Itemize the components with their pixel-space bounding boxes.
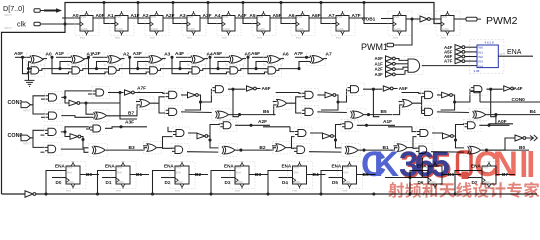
wire N4 out to AND G8 [396, 67, 409, 69]
flip-flop U10 (PWM2 register) [436, 11, 460, 40]
wire stub P2 upper input [143, 145, 147, 147]
junction bottom clock 0 [44, 192, 47, 195]
svg-text:CLRN: CLRN [188, 28, 195, 31]
junction clk drop 2 [136, 1, 139, 4]
flip-flop U16 (B5 register) [338, 162, 363, 193]
wire A0F into XOR stage 0 [15, 56, 30, 58]
svg-text:A7F: A7F [352, 13, 361, 19]
svg-text:IN2: IN2 [478, 55, 483, 59]
wire Q output A6F [309, 17, 327, 19]
svg-text:ENA: ENA [224, 163, 234, 168]
wire C4c out down [491, 89, 497, 117]
inverter N9 (A7F) [455, 59, 465, 64]
wire C4b out to xor Z4 [437, 111, 469, 114]
wire A2F into XOR stage 2 [93, 56, 108, 58]
svg-text:PRN: PRN [344, 167, 349, 170]
and-gate D1a (chain2 cell1 upper) [44, 126, 62, 138]
wire stub P4 upper input [394, 145, 398, 147]
inverter C3t (chain1 cell 3 top) [383, 86, 393, 91]
wire C3a out to inverter C3n [317, 94, 325, 96]
wire CON0 tag (right) [480, 101, 540, 103]
flip-flop U15 (B4 register) [288, 162, 313, 193]
and-gate C1c (chain1 cell1 output) [92, 87, 110, 99]
wire clock riser to FF B3 [211, 171, 235, 195]
junction carry tap 1 [58, 67, 61, 70]
xor-gate Y1 (chain2 cell1, B3) [89, 144, 108, 157]
and-gate C4c (chain1 cell 4 output) [470, 83, 488, 95]
svg-text:inst: inst [293, 189, 298, 193]
wire D3 input stub [221, 177, 235, 179]
wire carry G6 to G7 [238, 69, 266, 71]
junction bottom clock 5 [319, 192, 322, 195]
wire A1F across to cell4 [388, 126, 412, 128]
svg-text:CON0: CON0 [512, 97, 526, 103]
junction A3F [119, 125, 122, 128]
wire C3b out to xor Z3 [317, 111, 347, 114]
svg-text:A3: A3 [179, 13, 185, 19]
wire bottom clock line [36, 193, 537, 195]
inverter N6 (A4F) [455, 45, 465, 50]
wire CON0 up to C4c [470, 92, 480, 103]
svg-text:PRN: PRN [394, 16, 399, 19]
wire carry-in to and-gate G1 [29, 68, 32, 70]
svg-text:B2: B2 [195, 172, 201, 178]
wire C3c out down [373, 89, 379, 117]
svg-text:A5F: A5F [399, 86, 408, 92]
wire carry up to XOR X8 [299, 62, 310, 69]
wire A7F into C2a [139, 92, 165, 95]
flip-flop U17 (B6 register) [423, 162, 448, 193]
wire A7F into XOR stage 7 [295, 56, 310, 58]
junction carry-in [27, 67, 30, 70]
svg-text:A0: A0 [72, 13, 78, 19]
wire D0 input stub [52, 177, 66, 179]
svg-text:B5: B5 [381, 109, 387, 115]
wire D4 input stub [279, 177, 293, 179]
svg-text:CLRN: CLRN [294, 181, 301, 184]
junction B6 output [238, 113, 241, 116]
svg-text:PRN: PRN [67, 167, 72, 170]
wire Q output A4F [235, 17, 253, 19]
svg-text:ENA: ENA [176, 171, 181, 174]
wire B0 to inverter N10 [487, 138, 516, 150]
svg-text:3.08: 3.08 [474, 69, 480, 73]
wire A6F into C3a [276, 92, 302, 95]
wire Q output B3 [249, 174, 268, 176]
wire C1b out to xor Z1 [61, 116, 93, 118]
wire Q output B2 [189, 174, 208, 176]
wire carry-in from ground to XOR X1 [29, 62, 31, 81]
wire D input of FF A7 [318, 17, 336, 19]
wire Q output A0F [93, 17, 111, 19]
wire C2n out to C2c [198, 89, 212, 102]
svg-text:A2: A2 [142, 13, 148, 19]
junction A2F [249, 124, 252, 127]
wire CON0 branch to and-gate D1b [33, 138, 45, 148]
svg-text:ENA: ENA [344, 171, 349, 174]
inverter N1 [418, 14, 433, 24]
junction carry tap 4 [178, 67, 181, 70]
svg-text:CLRN: CLRN [394, 28, 401, 31]
wire C2c out down [233, 89, 239, 117]
svg-text:CON1: CON1 [8, 100, 23, 106]
svg-text:inst: inst [235, 189, 240, 193]
inverter D1n (chain2 cell1) [70, 134, 81, 140]
svg-text:A3: A3 [164, 51, 170, 57]
svg-text:CLRN: CLRN [81, 28, 88, 31]
svg-text:B7: B7 [128, 111, 134, 117]
flip-flop U12 (B1 register) [111, 162, 136, 193]
svg-text:PRN: PRN [188, 16, 193, 19]
svg-text:ENA: ENA [117, 171, 122, 174]
wire Z1 out (net B7) to or-gate O2 [107, 105, 140, 116]
svg-text:A6: A6 [288, 13, 294, 19]
svg-text:CLRN: CLRN [151, 28, 158, 31]
and-gate C2b (chain1 cell 2 lower) [165, 106, 183, 118]
wire Q output B0 [80, 174, 99, 176]
wire D input of FF A0 [62, 17, 80, 19]
svg-text:ENA: ENA [55, 163, 65, 168]
svg-text:A3F: A3F [375, 72, 384, 77]
xor-gate X8 (sum bit A7) [307, 53, 326, 66]
wire Z4 out (net B4) [486, 114, 540, 116]
wire stub D1b second input [41, 151, 45, 153]
wire CON0 to and-gate D1a [31, 130, 45, 138]
svg-text:A4: A4 [214, 13, 220, 19]
wire D input of FF A1 [97, 17, 115, 19]
wire A6F down to carry AND G7 [248, 57, 265, 73]
and-gate C1b (chain1 cell1 lower) [45, 110, 63, 122]
wire clk drop to FF A1 [104, 3, 115, 24]
and-gate D4a (chain2 cell 4 upper) [416, 127, 434, 139]
svg-text:inst: inst [393, 36, 398, 40]
junction C1n output [84, 101, 87, 104]
inverter C4n (chain1 cell 4) [442, 92, 453, 98]
svg-text:CLRN: CLRN [116, 28, 123, 31]
svg-text:A1F: A1F [375, 61, 384, 66]
wire C4c out to inverter C4t [486, 88, 502, 90]
and-gate G1 (carry stage 0) [27, 64, 45, 76]
svg-text:CLRN: CLRN [337, 28, 344, 31]
wire C3c out to inverter C3t [363, 88, 382, 90]
and-gate D4c (chain2 cell 4 output) [464, 119, 482, 131]
wire XOR X3 output [121, 58, 125, 60]
svg-text:A7F: A7F [294, 51, 303, 57]
wire to A4F tag [513, 88, 514, 90]
wire stub C1b second input [41, 116, 45, 118]
and-gate G2 (carry stage 1) [68, 64, 86, 76]
or-gate O2 (chain1 cell 2) [137, 97, 155, 110]
wire A1F down to carry AND G2 [52, 57, 69, 73]
svg-text:A2F: A2F [92, 51, 101, 57]
wire carry up to XOR X2 [60, 62, 71, 69]
wire carry up to XOR X4 [138, 62, 149, 69]
wire A-net into D3a [290, 127, 295, 132]
wire A6F into XOR stage 6 [252, 56, 267, 58]
wire D1b out to xor Y1 [61, 149, 89, 152]
junction B2 output [239, 149, 242, 152]
wire C1n out down to xor Z1 [86, 103, 94, 114]
wire stub C1c second input [88, 93, 93, 95]
wire carry up to XOR X3 [97, 62, 108, 69]
svg-text:A1: A1 [107, 13, 113, 19]
svg-text:inst: inst [80, 36, 85, 40]
xor-gate X2 (sum bit A1) [68, 53, 87, 66]
wire clk drop to FF A5 [243, 3, 257, 24]
wire carry up to XOR X7 [256, 62, 267, 69]
wire bottom clock line (left) [2, 193, 26, 195]
svg-text:inst: inst [116, 189, 121, 193]
and-gate C4b (chain1 cell 4 lower) [421, 106, 439, 118]
junction D1a output [63, 130, 66, 133]
junction bottom clock 1 [96, 192, 99, 195]
junction chain1 cell 3 mid [336, 100, 339, 103]
wire O4 branch to C4b [420, 103, 423, 113]
wire A4F into XOR stage 4 [176, 56, 191, 58]
wire Y2 out (net B2) [235, 149, 269, 151]
wire clk drop to FF A7 [321, 3, 336, 24]
wire Y3 out (net B1) [359, 149, 393, 151]
wire PWM1 tap down [396, 19, 412, 45]
svg-text:inst: inst [257, 36, 262, 40]
flip-flop U14 (B3 register) [230, 162, 255, 193]
and-gate C2a (chain1 cell 2 upper) [165, 89, 183, 101]
wire Q output A1F [128, 17, 146, 19]
junction A5F tap [208, 56, 211, 59]
junction chain2 cell 4 mid [454, 138, 457, 141]
wire carry G7 out [276, 69, 299, 71]
and-gate D2b (chain2 cell 2 lower) [171, 144, 189, 157]
junction A4F tap [170, 56, 173, 59]
wire clock riser to FF B4 [268, 171, 293, 195]
svg-text:PRN: PRN [337, 16, 342, 19]
wire C1a out to inverter C1n [61, 97, 69, 103]
svg-text:A7: A7 [326, 51, 332, 57]
wire Y1 out (net B3) to or-gate P2 [106, 148, 147, 150]
xor-gate Z3 (chain1 cell 3, B5) [347, 109, 366, 121]
xor-gate X3 (sum bit A2) [104, 53, 123, 66]
svg-text:INPUT: INPUT [23, 109, 31, 113]
wire D input of FF A2 [132, 17, 150, 19]
wire A3F into XOR stage 3 [134, 56, 149, 58]
inverter D2n (chain2 cell 2) [197, 133, 208, 139]
xor-gate Y4 (chain2 cell 4, B0) [464, 144, 483, 157]
wire stub O4 upper input [399, 101, 403, 103]
wire Y4 out (net B0) [481, 149, 529, 151]
wire D2 input stub [161, 177, 175, 179]
svg-text:CK: CK [361, 145, 399, 184]
wire D6 input stub [414, 177, 428, 179]
compare block U19 (blue megafunction) [474, 41, 506, 73]
junction carry tap 6 [254, 67, 257, 70]
inverter D3n (chain2 cell 3) [323, 133, 334, 139]
wire P3 out to D3a [286, 137, 295, 148]
junction clk drop 3 [171, 1, 174, 4]
wire to A6F tag [256, 88, 260, 90]
wire B4 junction down to A0F row [495, 115, 497, 124]
svg-text:inst: inst [175, 189, 180, 193]
svg-text:OUT: OUT [500, 52, 506, 56]
svg-text:PRN: PRN [223, 16, 228, 19]
wire mid junction down [441, 102, 455, 110]
wire D1n out to xor Y1 [81, 137, 89, 148]
wire A5F into XOR stage 5 [214, 56, 229, 58]
wire Q output A2F [163, 17, 181, 19]
and-gate C4a (chain1 cell 4 upper) [421, 89, 439, 101]
svg-text:IN1: IN1 [478, 50, 483, 54]
wire CON1 to and-gate C1a [31, 96, 46, 105]
wire clk feed left edge down [2, 24, 66, 194]
svg-text:INPUT: INPUT [4, 26, 12, 30]
junction C4c output [489, 88, 492, 91]
junction clk drop 1 [102, 1, 105, 4]
svg-text:A5: A5 [249, 13, 255, 19]
wire to A5F tag [393, 88, 398, 90]
wire C4n out to C4c [452, 89, 470, 102]
junction C2c output [231, 88, 234, 91]
wire N7 out to compare block [465, 51, 477, 53]
or-gate P2 (chain2 cell 2) [144, 141, 162, 154]
inverter C4t (chain1 cell 4 top) [504, 86, 514, 91]
svg-text:PRN: PRN [81, 16, 86, 19]
junction chain1 cell 2 mid [199, 100, 202, 103]
svg-text:A3F: A3F [125, 119, 134, 125]
svg-text:CN: CN [474, 145, 518, 184]
flip-flop U4 (A3 register) [182, 11, 206, 40]
svg-text:inst: inst [222, 36, 227, 40]
wire P2 out to D2a [157, 137, 173, 148]
wire mid down to xor Y2 [210, 136, 218, 148]
wire U10 Q to PWM2 connector [454, 18, 467, 20]
wire C1c out down (A3F row) [120, 93, 137, 120]
junction C1c output [118, 91, 121, 94]
svg-text:inst: inst [150, 36, 155, 40]
junction A0F [487, 124, 490, 127]
wire clk drop to FF A3 [173, 3, 187, 24]
svg-text:inst: inst [441, 36, 446, 40]
inverter N2 (A0F) [386, 56, 396, 61]
wire D3a out to inverter D3n [310, 133, 323, 136]
wire D3b out to xor Y3 [309, 151, 342, 153]
svg-text:CLRN: CLRN [176, 181, 183, 184]
wire P4 branch to D4b [413, 147, 417, 150]
wire mid down to xor Y3 [336, 136, 342, 148]
wire P3 branch to D3b [292, 147, 295, 150]
junction A2F tap [87, 56, 90, 59]
wire D input of FF A5 [239, 17, 257, 19]
wire Q output A5F [270, 17, 288, 19]
dashed selection box (compare block group) [470, 40, 504, 74]
svg-text:D[7..0]: D[7..0] [3, 4, 24, 13]
svg-text:INPUT: INPUT [23, 142, 31, 146]
junction clk drop 8 [362, 1, 365, 4]
wire stub D1c second input [86, 127, 90, 129]
junction C1a output [63, 96, 66, 99]
flip-flop U13 (B2 register) [170, 162, 195, 193]
wire clock riser to FF B1 [98, 171, 117, 195]
svg-text:IN3: IN3 [478, 60, 483, 64]
wire stub O3 upper input [273, 101, 277, 103]
svg-text:A6F: A6F [251, 51, 260, 57]
inverter N4 (A2F) [386, 67, 396, 72]
wire compare output ENA [498, 55, 533, 57]
wire D4c out (net A0F) [479, 124, 509, 126]
svg-text:PWM1: PWM1 [361, 42, 388, 52]
svg-text:CLRN: CLRN [236, 181, 243, 184]
wire carry G4 to G5 [158, 69, 190, 71]
and-gate D2a (chain2 cell 2 upper) [172, 127, 190, 139]
input connector D[7..0] [34, 9, 44, 12]
flip-flop U3 (A2 register) [145, 11, 169, 40]
svg-text:A0F: A0F [375, 56, 384, 61]
and-gate C3a (chain1 cell 3 upper) [301, 89, 319, 101]
xor-gate Y2 (chain2 cell 2, B2) [218, 144, 237, 157]
wire D5 input stub [329, 177, 343, 179]
wire D4b out to xor Y4 [431, 151, 464, 153]
wire clk drop to FF A2 [138, 3, 150, 24]
wire carry G2 to G3 [80, 69, 107, 71]
svg-text:IN4: IN4 [478, 64, 483, 68]
wire D input of FF A4 [204, 17, 222, 19]
wire clk trunk (top) [65, 3, 441, 25]
svg-text:B3: B3 [255, 172, 261, 178]
junction chain2 cell 3 mid [334, 138, 337, 141]
and-gate C2c (chain1 cell 2 output) [211, 83, 229, 95]
wire carry up to XOR X5 [180, 62, 191, 69]
watermark CK365.CN logo [361, 145, 533, 186]
svg-text:PWM2: PWM2 [486, 15, 518, 27]
svg-text:PRN: PRN [236, 167, 241, 170]
junction clk drop 7 [319, 1, 322, 4]
wire D2b out to xor Y2 [187, 151, 218, 153]
junction B4 output [494, 113, 497, 116]
bus D[7..0] stub arrow [44, 10, 57, 12]
svg-text:CLRN: CLRN [223, 28, 230, 31]
wire A0F tag extension [489, 124, 513, 126]
wire D3n out up to D3c [333, 124, 341, 136]
wire N3 out to AND G8 [396, 63, 409, 65]
junction B5 output [367, 113, 370, 116]
svg-text:INPUT: INPUT [4, 13, 12, 17]
svg-text:COB1: COB1 [362, 16, 376, 22]
svg-text:PRN: PRN [116, 16, 121, 19]
svg-text:ENA: ENA [236, 171, 241, 174]
and-gate D1c (chain2 cell1 output) [89, 123, 107, 135]
and-gate G6 (carry stage 5) [226, 64, 244, 76]
watermark Chinese slogan (vector glyphs) [388, 182, 539, 198]
flip-flop U1 (A0 register) [75, 11, 99, 40]
and-gate D3c (chain2 cell 3 output) [341, 119, 359, 131]
inverter N11 (bottom clock) [25, 191, 36, 197]
wire clk drop to FF COB1 [364, 3, 393, 24]
junction carry tap 2 [95, 67, 98, 70]
junction carry tap 7 [297, 67, 300, 70]
wire P4 out to D4a [407, 137, 416, 148]
wire B6 into or-gate O3 [274, 105, 277, 115]
and-gate C3b (chain1 cell 3 lower) [301, 106, 319, 118]
junction chain1 cell 4 mid [453, 100, 456, 103]
wire C2b out to xor Z2 [181, 111, 212, 114]
wire C1a out up to and-gate C1c [65, 91, 93, 98]
junction bottom clock 3 [209, 192, 212, 195]
wire D1c out (net A3F) [105, 127, 147, 129]
junction bottom clock 6 [408, 192, 411, 195]
inverter N7 (A5F) [455, 49, 465, 54]
wire D2a out to inverter D2n [188, 133, 197, 136]
svg-text:CLRN: CLRN [297, 28, 304, 31]
svg-text:B0: B0 [519, 145, 525, 151]
svg-text:CLRN: CLRN [117, 181, 124, 184]
